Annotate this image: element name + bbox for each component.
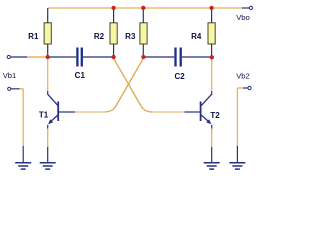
svg-text:R2: R2 [94,32,105,41]
svg-text:R3: R3 [125,32,136,41]
svg-text:Vb2: Vb2 [236,71,250,80]
svg-text:T1: T1 [39,111,49,120]
svg-text:R1: R1 [28,32,39,41]
svg-text:R4: R4 [191,32,202,41]
svg-text:T2: T2 [210,111,220,120]
svg-text:Vbo: Vbo [236,13,250,22]
svg-text:C2: C2 [174,72,185,81]
svg-text:C1: C1 [75,71,86,80]
svg-text:Vb1: Vb1 [3,71,17,80]
